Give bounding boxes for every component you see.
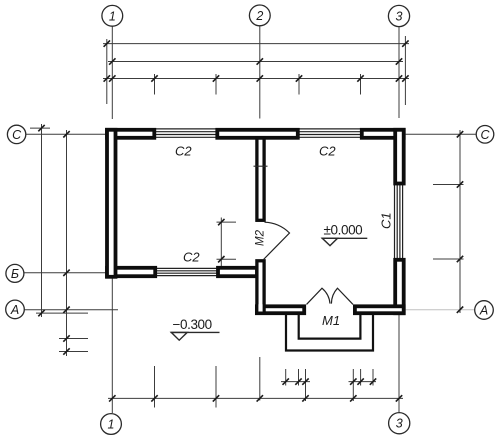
svg-text:1: 1: [109, 9, 116, 23]
svg-text:3: 3: [396, 10, 403, 24]
svg-text:2: 2: [255, 9, 263, 23]
svg-text:А: А: [10, 303, 19, 317]
svg-text:М2: М2: [255, 229, 267, 246]
svg-text:С: С: [12, 128, 22, 142]
svg-text:±0.000: ±0.000: [324, 223, 363, 238]
svg-text:С2: С2: [175, 144, 192, 159]
svg-text:−0.300: −0.300: [173, 317, 212, 332]
svg-text:1: 1: [108, 418, 115, 432]
svg-text:С2: С2: [319, 144, 336, 159]
svg-text:А: А: [479, 304, 488, 318]
svg-text:Б: Б: [11, 267, 19, 281]
svg-text:3: 3: [396, 417, 403, 431]
svg-text:С: С: [480, 128, 490, 142]
svg-text:С1: С1: [379, 212, 394, 229]
svg-text:С2: С2: [183, 250, 200, 265]
svg-text:М1: М1: [322, 313, 340, 328]
